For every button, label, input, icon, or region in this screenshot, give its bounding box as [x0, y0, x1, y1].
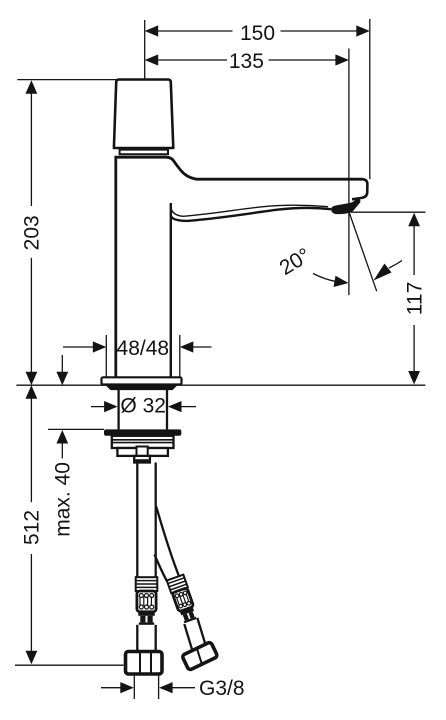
faucet body and spout top	[116, 157, 363, 377]
20° stream line	[349, 213, 377, 292]
spout underside thin line	[171, 205, 328, 216]
tailpiece band	[135, 459, 149, 462]
dimension 20° label and leaders	[276, 244, 402, 287]
angled hose end fitting	[182, 642, 218, 671]
dimension 117	[351, 212, 427, 384]
dimension 512	[20, 385, 43, 664]
dimension 135	[145, 50, 349, 73]
shank left line	[117, 390, 119, 429]
counter reference line	[16, 384, 425, 386]
svg-text:117: 117	[403, 282, 426, 315]
body top edge	[116, 156, 166, 158]
mounting flange	[104, 429, 181, 435]
tailpiece	[134, 456, 150, 463]
dimension 203	[20, 80, 43, 385]
locknut ring line 1	[112, 439, 173, 441]
right extension line (150)	[369, 19, 371, 179]
svg-text:Ø 32: Ø 32	[120, 394, 166, 417]
center axis extension line	[144, 20, 146, 122]
locknut center tab	[137, 447, 148, 456]
hex nut	[126, 652, 163, 675]
spout tip face	[352, 179, 367, 199]
svg-text:max. 40: max. 40	[52, 462, 75, 537]
base plate	[102, 377, 182, 384]
straight hose left edge	[136, 463, 138, 578]
svg-text:48/48: 48/48	[117, 337, 170, 360]
angled hose collar	[167, 575, 188, 594]
dimension G3/8	[101, 675, 245, 701]
handle ring	[120, 150, 168, 155]
angled hose upper right edge	[156, 507, 179, 578]
angled hose crimp band	[180, 607, 194, 615]
svg-text:135: 135	[229, 50, 264, 73]
angled hose upper left edge	[155, 555, 168, 583]
svg-text:203: 203	[20, 215, 43, 250]
locknut ring line 2	[112, 442, 173, 444]
dimension 150	[145, 22, 370, 45]
svg-text:150: 150	[240, 22, 275, 45]
straight hose braid barrel	[137, 591, 156, 612]
top extension line (spout height)	[17, 79, 118, 81]
svg-text:512: 512	[20, 510, 43, 545]
angled hose braid group	[154, 573, 219, 672]
aerator wedge	[332, 199, 360, 214]
faucet handle	[114, 80, 173, 149]
spout underside outline	[171, 208, 331, 221]
angled hose lower section	[170, 617, 218, 670]
straight hose lower section	[136, 625, 138, 652]
dimension max. 40	[48, 355, 104, 537]
extension line spout tip (135 / 20°)	[348, 49, 350, 296]
straight hose right edge	[155, 463, 157, 578]
angled hose barrel	[172, 588, 194, 612]
base plate gasket band	[105, 385, 178, 391]
locknut lower step	[117, 448, 167, 456]
dimension Ø 32	[91, 394, 196, 417]
body right edge below spout	[170, 203, 172, 378]
locknut body	[112, 436, 174, 448]
straight hose crimp band	[138, 612, 154, 625]
straight hose braid collar	[136, 577, 158, 591]
dimension 48/48	[63, 335, 212, 377]
shank right line	[166, 390, 168, 429]
bottom reference line (hose end)	[15, 664, 124, 666]
svg-text:G3/8: G3/8	[199, 677, 245, 700]
